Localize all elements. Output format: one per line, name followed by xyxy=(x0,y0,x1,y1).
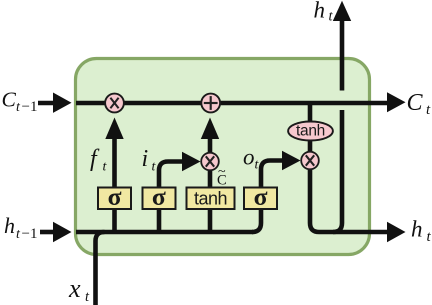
box: sigma 1 (forget gate) xyxy=(98,188,131,210)
gate: tanh oval on cell-state branch xyxy=(288,122,333,141)
wire: output-gate top (curves right into output multiply) xyxy=(261,161,284,209)
wire: hidden-state line (horizontal, bottom) xyxy=(76,230,253,235)
svg-text:−1: −1 xyxy=(22,99,38,115)
box: sigma 2 (input gate) xyxy=(143,188,176,210)
svg-text:C: C xyxy=(407,90,424,116)
wire: input-gate riser (sigma 2, curves right into small multiply) xyxy=(159,162,184,233)
box: tanh (candidate) xyxy=(187,188,235,210)
box: sigma 4 (output gate) xyxy=(244,188,277,210)
svg-text:C: C xyxy=(2,88,17,112)
svg-text:σ: σ xyxy=(108,182,122,211)
svg-text:tanh: tanh xyxy=(194,189,227,209)
gate: multiply circle (input x candidate) xyxy=(201,153,219,171)
arrow into cell from C_{t-1} xyxy=(38,101,56,106)
wire: candidate riser (tanh box up through multiply to plus) xyxy=(208,136,213,232)
wire: output path down from multiply, curving right to h_t output xyxy=(310,160,392,232)
wire: h_t branch rising (lower segment, below C line crossing) xyxy=(333,110,342,232)
svg-text:σ: σ xyxy=(254,182,268,211)
svg-text:o: o xyxy=(243,145,255,170)
wire: branch from C line down through tanh oval and output multiply xyxy=(308,103,313,131)
LSTM cell body xyxy=(76,59,370,255)
svg-text:h: h xyxy=(4,213,15,238)
svg-text:x: x xyxy=(68,274,81,303)
wire: output-gate riser (hidden line curves up into sigma 4) xyxy=(252,188,261,232)
gate: plus circle (cell update) xyxy=(201,94,220,113)
svg-text:h: h xyxy=(314,0,326,23)
svg-text:~: ~ xyxy=(218,165,226,180)
svg-text:−1: −1 xyxy=(22,226,38,242)
arrow out to C_t xyxy=(387,92,406,112)
wire: cell-state line C (horizontal, top) xyxy=(76,101,392,106)
svg-text:h: h xyxy=(411,217,423,242)
wire: forget-gate riser (sigma 1 up to first multiply) xyxy=(112,136,117,232)
svg-text:tanh: tanh xyxy=(296,122,325,139)
wire: h_t branch rising (upper segment, above C line crossing) xyxy=(340,19,345,91)
arrow into cell from h_{t-1} xyxy=(40,230,56,235)
svg-text:i: i xyxy=(142,146,149,172)
arrow out to h_t (right) xyxy=(387,222,406,242)
gate: multiply circle (forget) xyxy=(105,94,124,113)
gate: multiply circle (output) xyxy=(301,152,319,170)
wire: x_t input rising into hidden line xyxy=(96,232,105,305)
svg-text:σ: σ xyxy=(152,182,166,211)
